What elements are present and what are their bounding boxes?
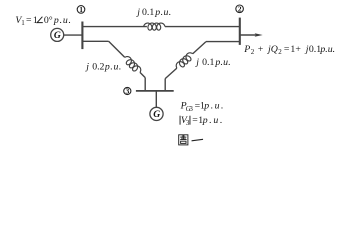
svg-text:p.u.: p.u.	[53, 15, 72, 26]
svg-text:0.2: 0.2	[92, 62, 104, 73]
label P2 + jQ2 load value	[243, 44, 335, 56]
label V3 magnitude = 1 p.u.	[181, 115, 224, 127]
label j0.1 line 2-3 value	[194, 57, 231, 68]
wire L13 to bus3 diagonal	[140, 72, 145, 77]
svg-text:jQ: jQ	[266, 44, 278, 55]
svg-text:0°: 0°	[44, 15, 53, 26]
label V1 = 1 angle 0deg p.u.	[15, 15, 71, 27]
svg-text:p.u.: p.u.	[319, 44, 335, 55]
svg-text:3: 3	[126, 87, 130, 96]
svg-text:+: +	[295, 44, 301, 55]
svg-text:p.u.: p.u.	[202, 115, 225, 126]
svg-text:2: 2	[278, 48, 282, 56]
svg-text:3: 3	[186, 119, 190, 127]
svg-text:=: =	[284, 44, 290, 55]
svg-text:+: +	[258, 44, 264, 55]
inductor L13 j0.2 line 1-3	[122, 55, 142, 75]
svg-text:j: j	[84, 62, 89, 73]
absolute-value bars of V3 label	[180, 116, 190, 125]
node badge 1	[77, 5, 85, 14]
svg-text:2: 2	[251, 48, 255, 56]
angle symbol in V1 label	[37, 17, 43, 23]
generator G1 circle	[51, 28, 64, 41]
wire L23 vertical drop to bus3	[164, 79, 166, 92]
bus 3 (horizontal busbar)	[136, 90, 174, 92]
svg-text:0.1: 0.1	[202, 57, 214, 68]
svg-text:j: j	[194, 57, 199, 68]
svg-text:p.u.: p.u.	[214, 57, 231, 68]
bus 1 (vertical busbar)	[81, 22, 83, 50]
wire diagonal bus2 to L23	[193, 42, 206, 54]
svg-text:0.1: 0.1	[309, 44, 321, 55]
svg-text:1: 1	[33, 15, 38, 26]
svg-text:p.u.: p.u.	[203, 101, 225, 112]
wire G1 to bus1	[64, 34, 83, 36]
wire diagonal bus1 to L13	[109, 41, 125, 57]
svg-text:=: =	[26, 15, 32, 26]
caption character yi (one)	[192, 139, 204, 142]
svg-text:1: 1	[79, 5, 83, 14]
node badge 3	[124, 87, 131, 96]
wire L23 to bus3 diagonal	[165, 68, 177, 79]
inductor L12 j0.1 line 1-2	[144, 23, 165, 30]
wire bus1 to L12	[82, 26, 146, 28]
svg-text:1: 1	[21, 19, 25, 27]
svg-text:p.u.: p.u.	[104, 62, 122, 73]
generator G3 circle	[150, 107, 163, 120]
node badge 2	[236, 5, 244, 14]
caption character tu (figure)	[179, 135, 188, 145]
wire bus1 lower horizontal	[82, 40, 108, 42]
svg-text:2: 2	[238, 5, 242, 14]
svg-text:G: G	[153, 109, 160, 120]
inductor L23 j0.1 line 2-3	[174, 51, 195, 71]
svg-text:3: 3	[189, 105, 193, 113]
svg-text:P: P	[243, 44, 250, 55]
wire bus2 lower horizontal	[206, 41, 240, 43]
label PG3 = 1 p.u.	[180, 101, 225, 113]
load arrow at bus2	[240, 33, 263, 37]
svg-text:G: G	[54, 30, 61, 41]
svg-text:p.u.: p.u.	[154, 7, 171, 18]
wire bus3 to G3	[155, 91, 157, 107]
wire L12 to bus2	[165, 26, 240, 28]
label j0.1 line 1-2 value	[135, 7, 171, 18]
bus 2 (vertical busbar)	[239, 18, 241, 45]
label j0.2 line 1-3 value	[84, 62, 122, 73]
svg-text:j: j	[135, 7, 140, 18]
svg-text:0.1: 0.1	[142, 7, 154, 18]
wire L13 vertical drop to bus3	[144, 78, 146, 92]
